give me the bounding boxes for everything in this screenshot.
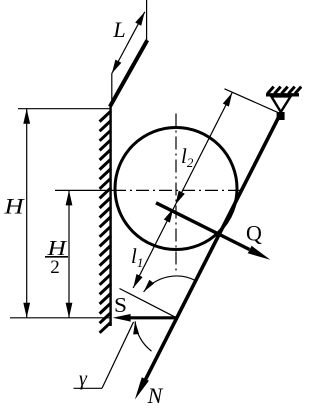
svg-text:γ: γ [79, 368, 88, 390]
dimension line L with arrows [112, 12, 145, 74]
vertical wall line [109, 104, 111, 326]
pin support hatching [268, 87, 274, 94]
dimension line H/2 with arrows [68, 190, 70, 317]
inclined rod with force N arrow [144, 115, 281, 384]
dimension line H with arrows [26, 109, 28, 318]
force Q arrow [156, 203, 250, 250]
extension line below L dimension [111, 74, 113, 105]
top extension line for H [18, 108, 110, 110]
pin support ground line [266, 93, 299, 96]
upper right-angle arc with arrow [144, 276, 196, 292]
svg-text:S: S [114, 293, 127, 317]
svg-text:2: 2 [50, 257, 60, 278]
dimension line l1-l2 with arrows [133, 93, 232, 288]
cylinder (circle) [115, 128, 237, 250]
svg-text:H: H [3, 194, 25, 219]
gamma label underline [74, 387, 103, 389]
svg-text:Q: Q [246, 221, 262, 246]
extension line at lower contact (perpendicular to rod) [120, 289, 177, 318]
svg-text:L: L [112, 17, 125, 42]
pin (pivot) block [277, 112, 285, 120]
extension line above bar end [146, 0, 148, 42]
vertical centre line (dash-dot) [175, 114, 177, 272]
force S arrow [128, 316, 177, 319]
gamma angle arc with arrow [135, 321, 151, 351]
wall hatching [100, 111, 111, 122]
horizontal centre line (dash-dot) [55, 189, 113, 191]
svg-text:l1: l1 [131, 244, 143, 270]
svg-text:N: N [147, 383, 164, 408]
bottom extension line [10, 317, 110, 319]
pin support triangle [271, 96, 290, 112]
svg-text:l2: l2 [181, 144, 194, 170]
inclined bar (top flange of wall), thick [110, 40, 147, 106]
gamma leader line [102, 322, 134, 388]
extension line at pivot (perpendicular to rod) [225, 89, 280, 113]
